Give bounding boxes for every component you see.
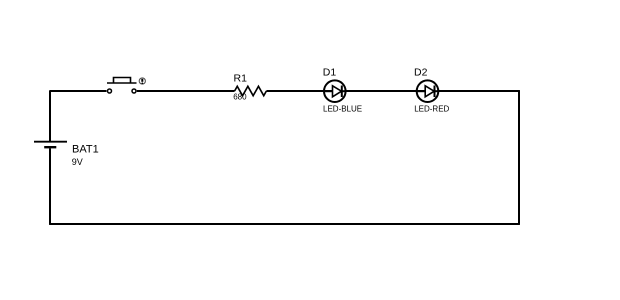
push button actuator cap [114,78,131,84]
value LED-RED [414,105,449,114]
value 9V [72,157,83,167]
svg-text:LED-RED: LED-RED [414,105,449,114]
value 680 [233,93,247,102]
battery BAT1 negative plate [44,146,56,148]
push button actuator bar [107,82,137,84]
switch right terminal circle [132,89,136,93]
wire: bottom horizontal [49,223,519,225]
LED D2 (LED-RED) [417,80,439,102]
wire: D1 to LED D2 [346,90,425,92]
svg-text:D2: D2 [414,67,428,79]
label R1 [234,72,248,84]
wire top-left: left corner to switch left terminal [50,90,107,92]
LED D1 (LED-BLUE) [324,80,346,102]
wire: switch to resistor R1 [137,90,235,92]
svg-text:BAT1: BAT1 [72,144,99,156]
svg-text:9V: 9V [72,157,83,167]
label BAT1 [72,144,99,156]
battery BAT1 positive plate [34,141,67,143]
resistor R1 zigzag [235,86,267,95]
svg-text:680: 680 [233,93,247,102]
label D1 [323,67,337,79]
wire: left side vertical lower (battery to bottom corner) [49,148,51,224]
wire: resistor to LED D1 [266,90,332,92]
push button interactive marker [139,78,145,84]
value LED-BLUE [323,105,362,114]
svg-text:R1: R1 [234,72,248,84]
wire: D2 to top-right corner [438,90,519,92]
wire: right side vertical [518,90,520,224]
svg-text:LED-BLUE: LED-BLUE [323,105,362,114]
switch left terminal circle [108,89,112,93]
svg-text:D1: D1 [323,67,337,79]
label D2 [414,67,428,79]
wire: left side vertical upper (corner to battery) [49,90,51,141]
